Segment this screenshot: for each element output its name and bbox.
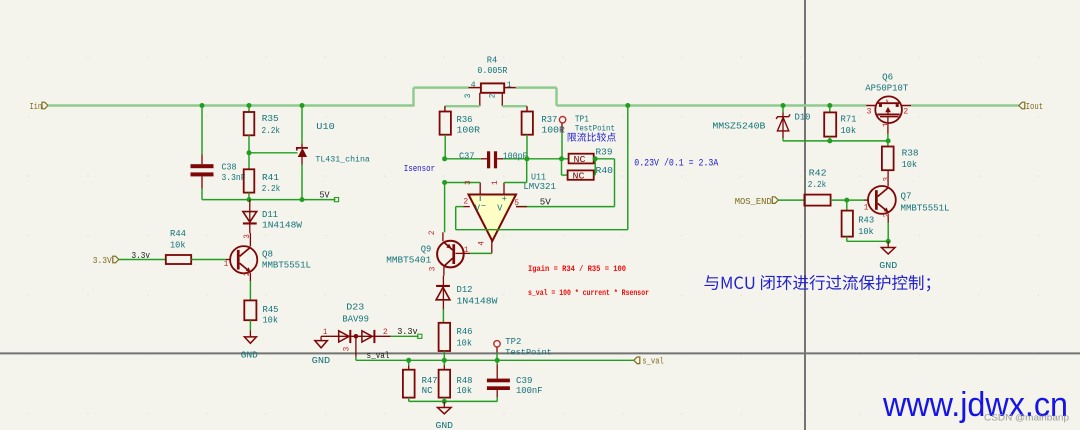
resistor R46 10k (439, 323, 451, 351)
wire main net after R4 (516, 86, 557, 88)
junction s_val/C39 (495, 358, 500, 363)
global label s_val (634, 357, 640, 364)
svg-text:D23: D23 (346, 302, 364, 313)
resistor R38 10k (887, 141, 889, 147)
zener D10 MMSZ5240B (782, 106, 784, 113)
junction emitter/gnd (886, 239, 891, 244)
diode D11 1N4148W (249, 200, 251, 223)
resistor R44 (166, 255, 191, 264)
wire to V+ (614, 159, 616, 207)
ground below R45 (244, 337, 256, 343)
svg-text:3: 3 (867, 108, 872, 116)
U11 output pin4 (491, 241, 493, 253)
svg-text:R4: R4 (487, 54, 498, 65)
capacitor C37 100pF (445, 158, 481, 160)
junction main/D10 (781, 103, 786, 108)
svg-text:1: 1 (492, 180, 500, 185)
svg-text:R45: R45 (263, 304, 279, 315)
transistor Q8 MMBT5551L (230, 246, 257, 273)
svg-text:GND: GND (436, 420, 454, 430)
svg-text:R40: R40 (596, 165, 614, 176)
svg-text:TestPoint: TestPoint (575, 124, 615, 134)
svg-text:2.2k: 2.2k (808, 179, 827, 190)
svg-text:R39: R39 (596, 146, 613, 157)
svg-text:2: 2 (883, 213, 891, 218)
svg-text:TestPoint: TestPoint (505, 348, 552, 358)
wire sense left (445, 105, 480, 107)
D23 diode A (339, 331, 349, 342)
svg-text:Q9: Q9 (421, 243, 432, 254)
feedback wire V- (455, 207, 457, 230)
resistor R40 NC (561, 159, 563, 175)
wire main net rise to R4 (412, 88, 414, 107)
global label Iout (1019, 102, 1025, 109)
svg-text:R37: R37 (541, 114, 557, 125)
junction main/R35 (247, 103, 252, 108)
D23 pin3 down (355, 338, 357, 357)
svg-text:4: 4 (478, 241, 486, 246)
transistor Q9 MMBT5401 (437, 241, 464, 268)
transistor Q7 MMBT5551L (868, 186, 896, 214)
svg-text:100R: 100R (457, 125, 481, 136)
resistor R36 100R (444, 106, 446, 111)
junction main/C38 (200, 103, 205, 108)
wire 5V rail (202, 199, 336, 201)
svg-text:NC: NC (573, 171, 585, 181)
junction main/feedback (625, 103, 630, 108)
svg-text:D12: D12 (457, 284, 473, 295)
svg-text:1N4148W: 1N4148W (262, 220, 302, 231)
sheet border vertical line (804, 0, 806, 430)
shunt resistor R4 0.005R (481, 83, 504, 92)
resistor R48 10k (443, 360, 445, 365)
junction s_val/R47 (406, 358, 411, 363)
wire C38 bottom (201, 176, 203, 188)
svg-text:NC: NC (574, 155, 586, 165)
svg-text:Igain = R34 / R35 = 100: Igain = R34 / R35 = 100 (528, 264, 626, 274)
capacitor C38 (191, 164, 214, 168)
junction main/R71 (827, 103, 832, 108)
junction C37/R37 (524, 156, 529, 161)
wire gnd rail bottom (409, 400, 498, 402)
svg-text:Q6: Q6 (882, 71, 893, 82)
svg-text:3.3v: 3.3v (397, 326, 418, 337)
svg-text:MMSZ5240B: MMSZ5240B (712, 120, 765, 131)
svg-text:MMBT5551L: MMBT5551L (901, 202, 950, 213)
svg-text:C37: C37 (459, 150, 475, 161)
svg-text:1: 1 (864, 204, 869, 212)
svg-text:D11: D11 (262, 209, 278, 220)
wire D23 pin2 to 3.3v stub (391, 335, 419, 337)
svg-text:MMBT5551L: MMBT5551L (262, 260, 311, 271)
svg-text:R35: R35 (262, 113, 279, 124)
resistor R71 10k (829, 106, 831, 113)
svg-text:10k: 10k (457, 385, 473, 396)
shunt reference U10 TL431_china (301, 106, 303, 144)
svg-text:Q7: Q7 (901, 190, 912, 201)
svg-text:R43: R43 (858, 214, 874, 225)
svg-text:R42: R42 (809, 168, 827, 179)
svg-text:V: V (475, 203, 481, 213)
svg-text:MMBT5401: MMBT5401 (386, 254, 431, 265)
capacitor C39 100nF (496, 360, 498, 364)
svg-text:−: − (481, 201, 486, 211)
svg-text:3: 3 (465, 180, 473, 185)
Q6 gate stub (887, 117, 889, 134)
resistor R45 (249, 281, 251, 300)
svg-text:2.2k: 2.2k (262, 125, 281, 136)
wire main net left (48, 104, 414, 106)
wire Isensor vertical (444, 183, 446, 233)
wire 3.3V to R44 (119, 259, 166, 261)
wire s_val (356, 359, 634, 361)
svg-text:GND: GND (241, 350, 258, 361)
junction s_val/R46 (442, 358, 447, 363)
svg-text:5V: 5V (540, 197, 551, 208)
U11 pin3 (479, 183, 481, 195)
svg-text:N: N (886, 99, 889, 104)
resistor R39 NC (562, 158, 569, 160)
svg-text:V: V (497, 203, 503, 213)
ground below R48 (443, 401, 445, 407)
wire R39/R40 right (595, 158, 614, 160)
svg-text:GND: GND (312, 355, 331, 366)
test point TP1 (559, 117, 565, 123)
svg-text:2: 2 (903, 108, 908, 116)
svg-text:1N4148W: 1N4148W (457, 295, 498, 306)
resistor R37 100R (522, 112, 533, 135)
svg-text:3: 3 (883, 177, 891, 182)
svg-text:U10: U10 (316, 121, 335, 132)
svg-text:TL431_china: TL431_china (315, 154, 370, 164)
wire R44 to Q8 base (191, 259, 226, 261)
D23 diode B (362, 331, 372, 342)
ground at D23 pin1 (315, 341, 328, 348)
junction rail/R48 (442, 399, 447, 404)
U11 pin1 (503, 183, 505, 195)
junction rail/R71 (827, 138, 832, 143)
svg-text:1: 1 (883, 122, 891, 127)
svg-text:R38: R38 (902, 148, 919, 159)
svg-text:3.3V: 3.3V (93, 255, 112, 266)
junction C37/R36 (442, 156, 447, 161)
svg-text:LMV321: LMV321 (523, 181, 556, 192)
svg-text:2: 2 (244, 271, 252, 276)
svg-text:2: 2 (463, 198, 468, 206)
svg-text:s_val = 100 * current * Rsenso: s_val = 100 * current * Rsensor (528, 288, 649, 298)
wire R43 to Q7 emitter (847, 240, 888, 242)
junction TP1/R39 (559, 156, 564, 161)
resistor R42 2.2k (804, 195, 830, 206)
svg-text:10k: 10k (902, 159, 918, 170)
junction main/TL431 (300, 103, 305, 108)
junction pin3 wire (442, 180, 447, 185)
svg-text:10k: 10k (841, 125, 857, 136)
test point TP2 (494, 341, 500, 347)
svg-text:10k: 10k (263, 315, 279, 326)
wire sense right (502, 105, 527, 107)
svg-text:R71: R71 (841, 114, 857, 125)
svg-text:100nF: 100nF (516, 385, 543, 396)
svg-text:NC: NC (422, 385, 433, 396)
resistor R43 10k (846, 200, 848, 211)
svg-text:3.3nF: 3.3nF (222, 172, 246, 183)
svg-text:R36: R36 (457, 114, 473, 125)
svg-text:Isensor: Isensor (404, 163, 436, 174)
junction R35/R41/ref (247, 150, 252, 155)
svg-text:2.2k: 2.2k (262, 183, 281, 194)
svg-text:MOS_END: MOS_END (735, 196, 772, 207)
note blue chinese 与MCU (704, 275, 930, 292)
svg-text:3: 3 (465, 93, 473, 98)
wire R42 to Q7 base (831, 199, 864, 201)
note 限流比较点 (568, 132, 616, 141)
svg-text:10k: 10k (170, 240, 186, 251)
svg-text:3: 3 (430, 266, 438, 271)
svg-text:2: 2 (429, 230, 437, 235)
svg-text:Q8: Q8 (262, 249, 273, 260)
svg-text:CSDN @mainbanp: CSDN @mainbanp (984, 413, 1069, 424)
svg-text:100pF: 100pF (503, 150, 528, 161)
resistor R47 NC (408, 360, 410, 365)
svg-text:2: 2 (490, 93, 498, 98)
resistor R41 (248, 153, 250, 170)
svg-text:4: 4 (471, 82, 476, 90)
wire C38 branch (201, 106, 203, 155)
svg-text:2: 2 (383, 329, 388, 337)
svg-text:s_val: s_val (642, 356, 664, 367)
svg-text:AP50P10T: AP50P10T (865, 83, 908, 94)
svg-text:3: 3 (244, 234, 252, 239)
svg-text:R44: R44 (170, 228, 186, 239)
svg-text:5: 5 (514, 200, 519, 208)
R4 sense pins 3 and 2 (479, 93, 481, 106)
svg-text:GND: GND (879, 260, 897, 271)
svg-text:3.3v: 3.3v (132, 250, 151, 261)
junction rail/R41 (247, 197, 252, 202)
op-amp U11 LMV321 (469, 195, 517, 242)
svg-text:Iout: Iout (1026, 101, 1044, 112)
sheet border horizontal line (0, 352, 1080, 354)
junction rail/R38 (886, 138, 891, 143)
wire TL431 ref (249, 152, 298, 154)
resistor R35 (248, 106, 250, 113)
svg-text:5V: 5V (320, 189, 330, 200)
U11 pin5 V+ (516, 206, 527, 208)
svg-text:0.005R: 0.005R (477, 65, 507, 76)
diode D12 1N4148W (442, 276, 444, 300)
junction R42/R43 (844, 198, 849, 203)
svg-text:R41: R41 (262, 172, 279, 183)
D23 common node (354, 334, 359, 339)
svg-text:Iin: Iin (30, 101, 43, 112)
svg-text:R46: R46 (457, 326, 473, 337)
svg-text:BAV99: BAV99 (342, 314, 369, 325)
wire MOS_END to R42 (778, 199, 804, 201)
wire gate rail (783, 140, 888, 142)
svg-text:TP2: TP2 (505, 336, 521, 347)
U11 pin2 V- (464, 206, 470, 208)
svg-text:0.23V /0.1 = 2.3A: 0.23V /0.1 = 2.3A (634, 158, 718, 169)
wire main net after Q6 (911, 104, 1019, 106)
svg-text:1: 1 (507, 82, 512, 90)
junction R39 right (593, 156, 598, 161)
svg-text:1: 1 (464, 247, 469, 255)
ground below Q7 (887, 241, 889, 247)
junction rail/TL431 (300, 197, 305, 202)
svg-text:D10: D10 (795, 111, 811, 122)
svg-text:10k: 10k (457, 337, 473, 348)
svg-text:+: + (502, 195, 507, 205)
wire opamp out to Q9 base (470, 252, 492, 254)
svg-text:3: 3 (344, 346, 352, 351)
svg-text:10k: 10k (858, 226, 874, 237)
svg-text:1: 1 (224, 261, 229, 269)
